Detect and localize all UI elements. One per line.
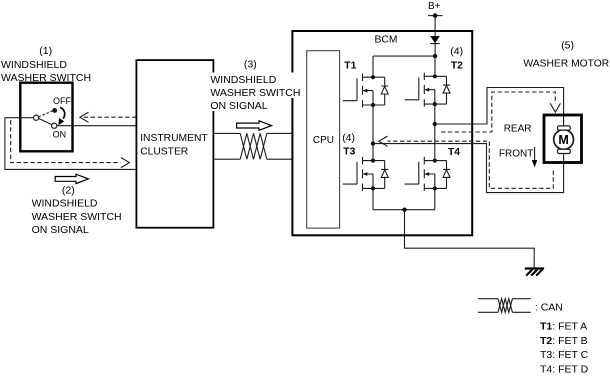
- svg-text:T2: T2: [451, 60, 463, 71]
- diode D1: [430, 36, 440, 43]
- wire T4 source down: [434, 188, 436, 209]
- wire T1 source to T3 drain: [372, 105, 374, 161]
- svg-text:FRONT: FRONT: [499, 149, 533, 160]
- wire ON contact to instrument cluster: [57, 125, 137, 127]
- wire switch common to instrument cluster: [5, 118, 137, 170]
- svg-text:T4: T4: [448, 147, 460, 158]
- FRONT direction arrow: [534, 147, 536, 161]
- arrow to mid node: [379, 136, 388, 146]
- wire B+ down: [434, 16, 436, 57]
- CAN twisted pair symbol: [240, 133, 267, 159]
- BCM box: [292, 31, 472, 235]
- CPU box: [307, 51, 340, 228]
- svg-text:T2: FET B: T2: FET B: [540, 335, 588, 347]
- transistor T1: [343, 74, 388, 108]
- svg-text:WINDSHIELD: WINDSHIELD: [210, 74, 276, 86]
- motor brush top: [558, 126, 571, 130]
- svg-text:ON SIGNAL: ON SIGNAL: [32, 224, 89, 236]
- bottom rail wire: [373, 209, 435, 211]
- svg-text:WASHER MOTOR: WASHER MOTOR: [523, 59, 609, 70]
- svg-text:CLUSTER: CLUSTER: [140, 146, 188, 157]
- svg-text:WINDSHIELD: WINDSHIELD: [1, 59, 67, 71]
- svg-text:WASHER SWITCH: WASHER SWITCH: [210, 87, 300, 99]
- svg-text:WASHER SWITCH: WASHER SWITCH: [32, 211, 122, 223]
- node bottom center: [402, 208, 406, 212]
- svg-text:BCM: BCM: [375, 35, 398, 46]
- switch arm solid (to ON): [39, 118, 52, 124]
- ON contact: [52, 123, 57, 128]
- svg-text:B+: B+: [428, 1, 441, 12]
- svg-text:T1: FET A: T1: FET A: [540, 321, 587, 333]
- curved actuation arrow: [60, 107, 65, 118]
- washer switch SW box: [20, 83, 72, 152]
- node B+ junction: [433, 54, 437, 58]
- arrow into motor: [550, 103, 560, 112]
- wire REAR solid path: [435, 88, 564, 127]
- motor brush bottom: [558, 149, 571, 153]
- svg-text:ON SIGNAL: ON SIGNAL: [210, 100, 267, 112]
- dashed REAR direction path: [441, 92, 555, 132]
- transistor T4: [405, 157, 450, 191]
- svg-text:OFF: OFF: [53, 96, 71, 106]
- block arrow (2): [55, 174, 88, 183]
- svg-text:: CAN: : CAN: [535, 302, 563, 314]
- top rail wire: [373, 55, 435, 57]
- transistor T2: [405, 73, 450, 107]
- switch pivot contact: [34, 115, 39, 120]
- wire FRONT solid path: [373, 144, 564, 193]
- svg-text:(3): (3): [244, 59, 257, 71]
- dashed FRONT direction path: [388, 141, 554, 188]
- svg-text:WINDSHIELD: WINDSHIELD: [32, 198, 98, 210]
- OFF contact dot: [52, 108, 57, 113]
- dashed signal arrow to cluster (2): [11, 120, 121, 162]
- label (3) background: [209, 73, 302, 99]
- svg-text:T4: FET D: T4: FET D: [540, 363, 589, 375]
- B+ terminal: [428, 15, 443, 17]
- svg-text:(4): (4): [450, 45, 463, 57]
- block arrow (3): [237, 121, 272, 131]
- switch arm dashed (to OFF): [39, 111, 53, 117]
- svg-text:(2): (2): [62, 185, 75, 197]
- svg-text:(4): (4): [342, 132, 355, 144]
- transistor T3: [343, 157, 388, 191]
- washer motor box: [544, 115, 582, 163]
- legend CAN symbol: [478, 298, 531, 300]
- svg-text:(1): (1): [39, 45, 52, 57]
- CAN bus bottom line: [213, 158, 292, 160]
- svg-text:M: M: [558, 133, 568, 147]
- svg-text:(5): (5): [561, 40, 574, 52]
- node mid right: [433, 122, 437, 126]
- motor M: [554, 130, 574, 150]
- svg-text:CPU: CPU: [313, 135, 334, 146]
- wire to ground: [405, 210, 535, 268]
- wire T2 source to T4 drain: [434, 104, 436, 161]
- node mid left: [371, 141, 375, 145]
- wire T2 drain: [434, 56, 436, 76]
- wire T3 source down: [372, 188, 374, 209]
- CAN bus top line: [213, 132, 292, 134]
- ground: [525, 267, 544, 269]
- svg-text:T3: T3: [343, 146, 355, 157]
- svg-text:T3: FET C: T3: FET C: [540, 349, 589, 361]
- svg-text:T1: T1: [344, 60, 356, 71]
- svg-text:ON: ON: [53, 130, 67, 140]
- wire T1 drain: [372, 56, 374, 77]
- svg-text:INSTRUMENT: INSTRUMENT: [140, 133, 208, 144]
- svg-text:REAR: REAR: [504, 123, 532, 134]
- instrument cluster box: [136, 60, 213, 228]
- dashed signal arrow into switch: [82, 116, 136, 118]
